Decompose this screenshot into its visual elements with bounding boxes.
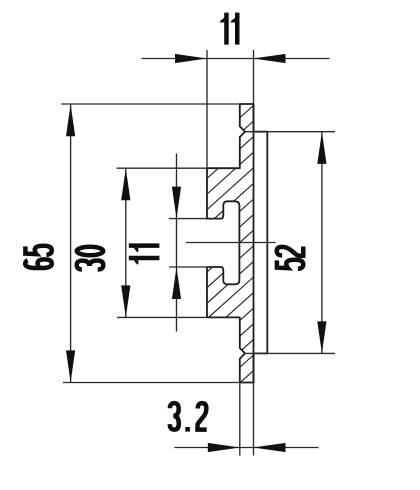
extension line 11 bottom: [169, 266, 207, 268]
dimension line 11 slot: [176, 154, 178, 332]
extension line 11 top: [169, 218, 207, 220]
arrowhead 11 slot lower: [172, 267, 181, 299]
dimension text 3.2: [170, 403, 179, 430]
arrowhead 3.2 right: [254, 443, 286, 452]
arrowhead 52 bottom: [317, 321, 326, 353]
arrowhead 3.2 left: [208, 443, 240, 452]
section hatching (column and arms only): [198, 59, 254, 421]
arrowhead 65 top: [66, 104, 75, 136]
extension line 65 top: [61, 103, 240, 105]
arrowhead 11 width left: [175, 54, 207, 63]
extension line 52 top: [245, 131, 335, 133]
dimension text 65: [25, 259, 52, 268]
arrowhead 30 top: [121, 168, 130, 200]
dimension text 52: [277, 260, 303, 269]
dimension text 11 (top width): [220, 13, 226, 45]
extension line 3.2 right: [253, 383, 255, 456]
dimension line 30: [125, 168, 127, 317]
dimension line 65: [70, 104, 72, 382]
extension line 65 bottom: [63, 382, 240, 384]
dimension line 52: [321, 132, 323, 354]
dimension text 11 (slot): [129, 258, 160, 264]
extension line 3.2 left: [239, 383, 241, 456]
dimension line 11 top: [141, 58, 329, 60]
arrowhead 65 bottom: [66, 350, 75, 382]
extension line 30 bottom: [117, 316, 207, 318]
dimension line 3.2: [175, 447, 319, 449]
dimension text 30: [77, 261, 104, 270]
extension line 11 width left: [206, 50, 208, 168]
arrowhead 30 bottom: [121, 285, 130, 317]
extension line 30 top: [117, 167, 207, 169]
arrowhead 11 slot upper: [172, 187, 181, 219]
wire column-plate junction line: [253, 104, 255, 383]
arrowhead 11 width right: [254, 54, 286, 63]
extension line 52 bottom: [245, 352, 335, 354]
extension line 11 width right: [253, 50, 255, 104]
centerline of slot: [186, 242, 276, 244]
arrowhead 52 top: [317, 132, 326, 164]
profile cross-section outline: [207, 104, 267, 383]
